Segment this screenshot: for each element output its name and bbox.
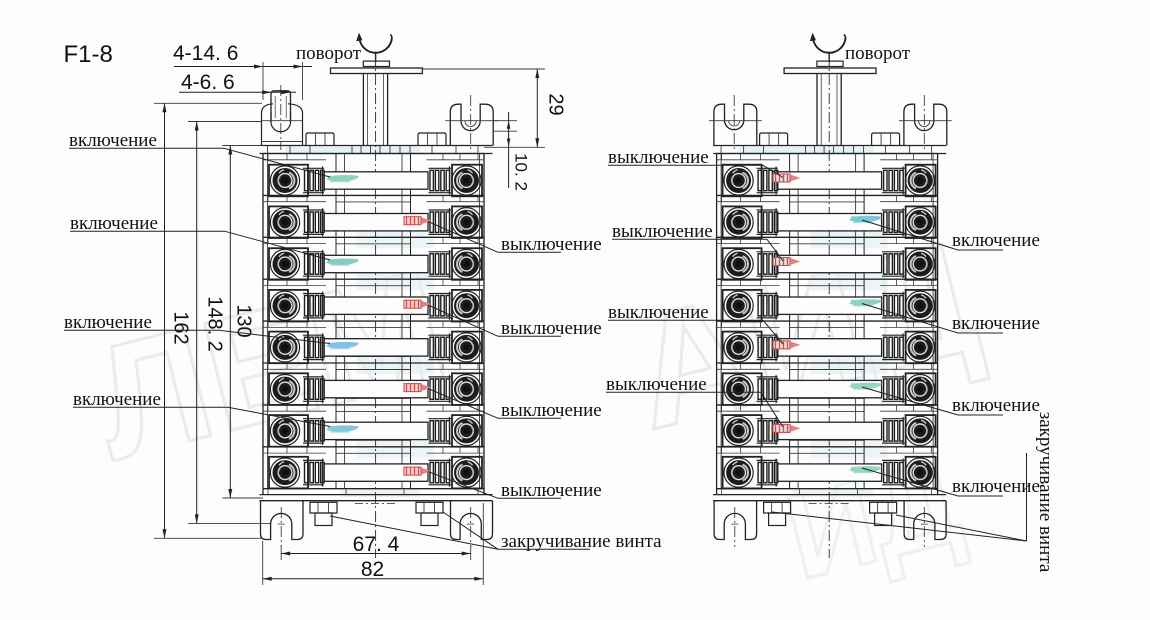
svg-text:4-6. 6: 4-6. 6 bbox=[181, 71, 235, 94]
svg-text:закручивание винта: закручивание винта bbox=[1035, 412, 1056, 573]
svg-text:включение: включение bbox=[952, 313, 1040, 334]
svg-text:82: 82 bbox=[361, 558, 384, 581]
svg-text:поворот: поворот bbox=[845, 43, 911, 64]
svg-text:4-14. 6: 4-14. 6 bbox=[173, 42, 238, 65]
svg-text:поворот: поворот bbox=[296, 43, 362, 64]
svg-text:F1-8: F1-8 bbox=[64, 41, 113, 68]
svg-text:162: 162 bbox=[170, 311, 192, 344]
svg-text:включение: включение bbox=[952, 230, 1040, 251]
svg-text:10. 2: 10. 2 bbox=[512, 153, 531, 191]
svg-text:67. 4: 67. 4 bbox=[353, 533, 400, 556]
svg-text:29: 29 bbox=[545, 93, 567, 115]
svg-text:включение: включение bbox=[952, 395, 1040, 416]
svg-text:148. 2: 148. 2 bbox=[204, 296, 226, 352]
